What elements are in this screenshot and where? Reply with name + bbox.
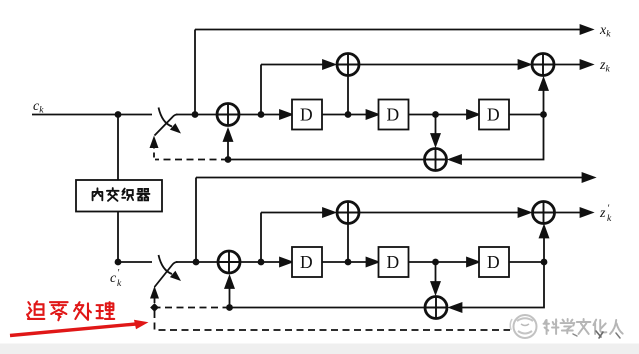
- wire feedback2 left solid: [230, 307, 426, 309]
- wire D6 out: [509, 261, 544, 263]
- wire z' line segment 2: [359, 212, 529, 214]
- wire switch2 to XOR U5: [176, 261, 218, 263]
- node D2 out tap: [432, 111, 439, 118]
- wire D5 to D6: [409, 261, 478, 263]
- wire z line segment 1: [261, 64, 333, 66]
- wire node B up to z line: [260, 65, 262, 115]
- label c'_k: [110, 268, 122, 289]
- wire c'_k horizontal: [118, 261, 152, 263]
- wire U1 to D1: [240, 114, 291, 116]
- flip-flop D6: [479, 247, 509, 277]
- switch S1 blade: [155, 115, 178, 136]
- switch S2 blade: [155, 262, 178, 287]
- wire D6 node down feedback right leg: [452, 262, 545, 308]
- svg-text:c: c: [110, 271, 117, 286]
- node B2 z' tap: [258, 259, 265, 266]
- node D1 out tap: [345, 111, 352, 118]
- wire interleaver to lower encoder: [117, 212, 119, 263]
- op-amp U2 XOR z forward: [337, 54, 359, 76]
- op-amp U7 XOR feedback adder 2: [425, 297, 447, 319]
- node c'_k: [115, 259, 122, 266]
- annotation red arrow: [10, 320, 149, 336]
- op-amp U3 XOR feedback adder: [425, 149, 447, 171]
- wire D4 to D5: [322, 261, 377, 263]
- svg-text:ck: ck: [33, 99, 44, 116]
- wire U5 to D4: [241, 261, 291, 263]
- wire node B2 up to z' line: [260, 213, 262, 263]
- switch S2 motion arc: [159, 255, 173, 274]
- wire tap up to XOR U2: [347, 76, 349, 115]
- node A2 x' tap: [193, 259, 200, 266]
- svg-text:k: k: [607, 214, 612, 224]
- wire z' line segment 1: [261, 212, 333, 214]
- watermark logo: [510, 315, 536, 338]
- wire feedback2 dashed to switch: [156, 307, 230, 309]
- wire feedback2 up into U5: [229, 288, 231, 308]
- op-amp U5 XOR input adder 2: [218, 251, 240, 273]
- interleaver label 内交织器: [93, 188, 150, 201]
- flip-flop D1: [292, 100, 322, 130]
- wire feedback left solid: [228, 159, 425, 161]
- wire x' line: [196, 177, 592, 179]
- wire z'_k output: [555, 212, 591, 214]
- flip-flop D5: [379, 247, 409, 277]
- wire node A up: [194, 30, 196, 115]
- flip-flop D3: [479, 100, 509, 130]
- wire z line segment 2: [359, 64, 529, 66]
- node termination junction: [150, 303, 159, 312]
- wire D6 node up to XOR U8: [543, 238, 545, 262]
- flip-flop D2: [379, 100, 409, 130]
- op-amp U1 XOR input adder: [217, 104, 239, 126]
- switch S2 dashed arrow: [154, 295, 156, 303]
- wire D2 to D3: [409, 114, 478, 116]
- op-amp U8 XOR z' output: [533, 202, 555, 224]
- wire D3 node up to XOR U4: [543, 90, 545, 115]
- wire D3 out: [509, 114, 544, 116]
- node D4 out tap: [345, 259, 352, 266]
- wire feedback up into U1: [227, 141, 229, 160]
- node D3 out: [540, 111, 547, 118]
- node D5 out tap: [432, 259, 439, 266]
- wire D3 node down feedback right leg: [451, 115, 544, 160]
- wire x_k line: [195, 29, 590, 31]
- wire tap up to XOR U6: [347, 224, 349, 263]
- switch S1 motion arc: [159, 108, 173, 127]
- svg-text:zk: zk: [599, 58, 610, 75]
- node feedback tap: [225, 156, 232, 163]
- wire D1 to D2: [322, 114, 377, 116]
- svg-text:k: k: [117, 279, 122, 289]
- op-amp U6 XOR z' forward: [337, 202, 359, 224]
- watermark text 科学文化人: [544, 319, 623, 338]
- wire termination dashed down and right: [155, 311, 571, 330]
- node A x_k tap: [192, 111, 199, 118]
- wire z_k output: [554, 64, 590, 66]
- wire feedback dashed to switch: [155, 159, 228, 161]
- wire tap down to XOR U7: [435, 262, 437, 282]
- wire junction down to interleaver: [117, 115, 119, 181]
- annotation red text 迫零处理: [27, 301, 114, 320]
- wire node A2 up: [195, 178, 197, 263]
- node B z tap: [258, 111, 265, 118]
- node input junction: [115, 111, 122, 118]
- wire switch to XOR U1: [176, 114, 217, 116]
- svg-text:xk: xk: [599, 23, 611, 40]
- op-amp U4 XOR z output: [532, 54, 554, 76]
- watermark white backing: [510, 315, 625, 338]
- footer gray band: [0, 344, 639, 354]
- svg-text:z: z: [599, 206, 606, 221]
- wire c_k input horizontal: [32, 114, 152, 116]
- svg-text:′: ′: [117, 268, 120, 279]
- node D6 out: [541, 259, 548, 266]
- svg-text:′: ′: [607, 204, 610, 215]
- wire tap down to XOR U3: [435, 115, 437, 135]
- label z'_k: [599, 204, 612, 225]
- node feedback2 tap: [226, 304, 233, 311]
- interleaver box: [76, 180, 162, 212]
- switch S1 dashed arrow: [153, 144, 155, 158]
- flip-flop D4: [292, 247, 322, 277]
